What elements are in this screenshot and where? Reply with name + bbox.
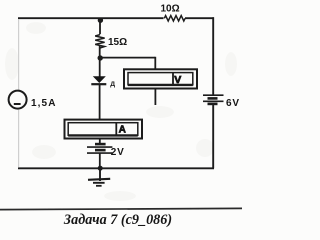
wire voltmeter bottom stub: [154, 89, 156, 106]
svg-text:2V: 2V: [111, 147, 125, 158]
wire right vertical (upper): [212, 17, 214, 94]
node junction bottom (100,168): [98, 166, 103, 171]
current source I1 1,5A: [9, 91, 57, 109]
battery GB1 6V: [203, 95, 240, 109]
ammeter U2 (A): [65, 120, 143, 139]
svg-text:Задача 7 (с9_086): Задача 7 (с9_086): [63, 212, 172, 228]
wire bottom horizontal: [18, 167, 214, 169]
wire vertical down to voltmeter: [154, 57, 156, 71]
diode VD1: [91, 76, 115, 88]
wire ground stub: [99, 168, 101, 181]
resistor R2 15 Ohm: [95, 35, 127, 48]
wire horizontal to voltmeter branch: [100, 57, 155, 59]
node junction top (100,20): [98, 18, 103, 23]
svg-text:6V: 6V: [226, 98, 240, 109]
battery GB2 2V: [87, 144, 125, 158]
svg-text:15Ω: 15Ω: [108, 37, 127, 48]
voltmeter U1 (V): [124, 69, 197, 88]
wire right vertical (lower): [212, 105, 214, 169]
svg-text:Д: Д: [110, 81, 115, 88]
wire node to diode: [99, 58, 101, 77]
ground: [88, 179, 110, 186]
wire top horizontal (left segment): [18, 17, 164, 19]
caption rule: [0, 208, 242, 209]
svg-text:A: A: [119, 124, 126, 135]
svg-text:1,5A: 1,5A: [31, 98, 57, 109]
wire diode to ammeter: [99, 85, 101, 120]
wire top horizontal (right segment): [185, 17, 214, 19]
node junction middle (100,58): [98, 55, 103, 60]
wire middle top: [99, 18, 101, 34]
wire ammeter to battery: [99, 139, 101, 145]
resistor R1 10 Ohm: [161, 4, 186, 22]
svg-text:V: V: [174, 74, 181, 86]
wire left vertical lower (faint): [18, 110, 20, 168]
wire middle (resistor to node): [99, 46, 101, 58]
wire battery to bottom node: [99, 154, 101, 169]
wire left vertical upper (faint): [18, 19, 20, 90]
svg-text:10Ω: 10Ω: [161, 4, 180, 15]
